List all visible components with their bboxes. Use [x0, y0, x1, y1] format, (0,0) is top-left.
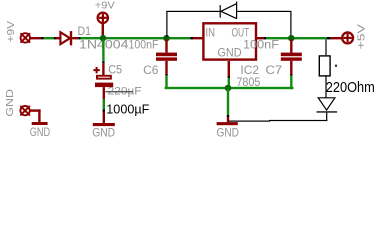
capacitor C5 1000uF polarized — [93, 63, 113, 99]
svg-text:IN: IN — [206, 27, 216, 39]
svg-text:220Ohm: 220Ohm — [326, 80, 375, 96]
svg-text:C6: C6 — [143, 65, 158, 77]
regulator OUT pin lead — [257, 37, 264, 39]
resistor R1 — [319, 56, 330, 76]
wire top loop right horizontal — [237, 11, 291, 12]
junction node VIN/C5 — [100, 35, 107, 42]
ground symbol left — [32, 122, 48, 125]
wire joint — [264, 37, 266, 39]
wire resistor to LED (black) — [325, 77, 326, 98]
wire diode anode lead — [56, 37, 61, 39]
wire joint — [227, 115, 229, 117]
junction node gnd bus — [225, 85, 232, 92]
LED D3 — [318, 98, 335, 110]
regulator IN pin lead — [193, 37, 203, 39]
wire C7 down to gnd bus — [290, 76, 292, 90]
wire joint — [78, 37, 80, 39]
wire joint — [228, 77, 230, 79]
svg-text:C5: C5 — [108, 64, 122, 76]
wire pad to diode (pin leads) — [30, 37, 42, 39]
wire C6 down to gnd bus — [165, 76, 167, 87]
ground bus wire — [165, 87, 294, 89]
wire net VOUT — [266, 37, 327, 39]
pad X3 (+5V output, circle-plus) — [342, 32, 353, 43]
pad X2 (GND connector) — [20, 106, 29, 115]
wire bus down to ground — [227, 89, 229, 115]
wire LED cathode down — [326, 113, 327, 121]
svg-text:100nF: 100nF — [129, 37, 159, 51]
wire joint — [54, 37, 56, 39]
wire pad to ground — [30, 109, 41, 122]
wire regulator gnd to bus — [228, 78, 230, 87]
svg-text:C7: C7 — [266, 65, 283, 77]
wire joint — [103, 110, 105, 112]
svg-text:GND: GND — [92, 125, 115, 139]
svg-text:+9V: +9V — [95, 0, 115, 11]
wire VOUT pad stub — [331, 37, 341, 39]
svg-text:+9V: +9V — [5, 21, 17, 43]
resistor label origin dot — [335, 65, 337, 67]
wire top loop left vertical (black) — [166, 11, 167, 37]
wire C5 to ground — [103, 99, 105, 110]
svg-text:GND: GND — [4, 89, 16, 117]
wire LED to ground (left segment, slight jog) — [229, 121, 271, 122]
wire joint — [165, 74, 167, 76]
junction node C6/top-loop — [163, 35, 170, 42]
svg-text:100nF: 100nF — [243, 37, 279, 51]
capacitor C7 100nF — [281, 39, 302, 74]
wire net +9V segment — [44, 37, 54, 39]
svg-text:GND: GND — [30, 125, 51, 139]
wire joint — [42, 37, 44, 39]
pad X1 (+9V input connector) — [21, 33, 30, 42]
svg-text:1000µF: 1000µF — [106, 103, 149, 117]
svg-text:GND: GND — [217, 126, 240, 140]
junction node VOUT/C7 — [288, 35, 295, 42]
wire top loop right vertical — [290, 11, 291, 37]
regulator IC2 7805 — [203, 23, 256, 59]
svg-text:GND: GND — [218, 48, 242, 60]
ground symbol C5 — [93, 112, 115, 127]
wire joint / LED tap — [327, 37, 331, 39]
ground symbol center — [217, 117, 238, 125]
wire LED to ground (right segment) — [269, 120, 327, 121]
svg-text:+5V: +5V — [356, 24, 368, 49]
supply symbol +9V (circle-plus) — [98, 13, 108, 37]
wire joint — [290, 74, 292, 76]
wire joint — [102, 61, 104, 63]
svg-text:7805: 7805 — [236, 77, 260, 89]
wire joint — [190, 37, 193, 39]
wire top loop left horizontal — [166, 11, 219, 12]
diode D2 (protection, over regulator) — [220, 2, 236, 20]
svg-text:IC2: IC2 — [240, 65, 259, 77]
diode D1 1N4004 — [60, 31, 78, 45]
regulator GND pin lead — [228, 61, 230, 77]
wire VOUT down to resistor (black) — [325, 39, 326, 55]
capacitor C6 100nF — [156, 39, 177, 74]
wire net VIN to regulator — [81, 37, 191, 39]
svg-text:D1: D1 — [78, 26, 92, 38]
wire down to C5 — [102, 39, 104, 61]
